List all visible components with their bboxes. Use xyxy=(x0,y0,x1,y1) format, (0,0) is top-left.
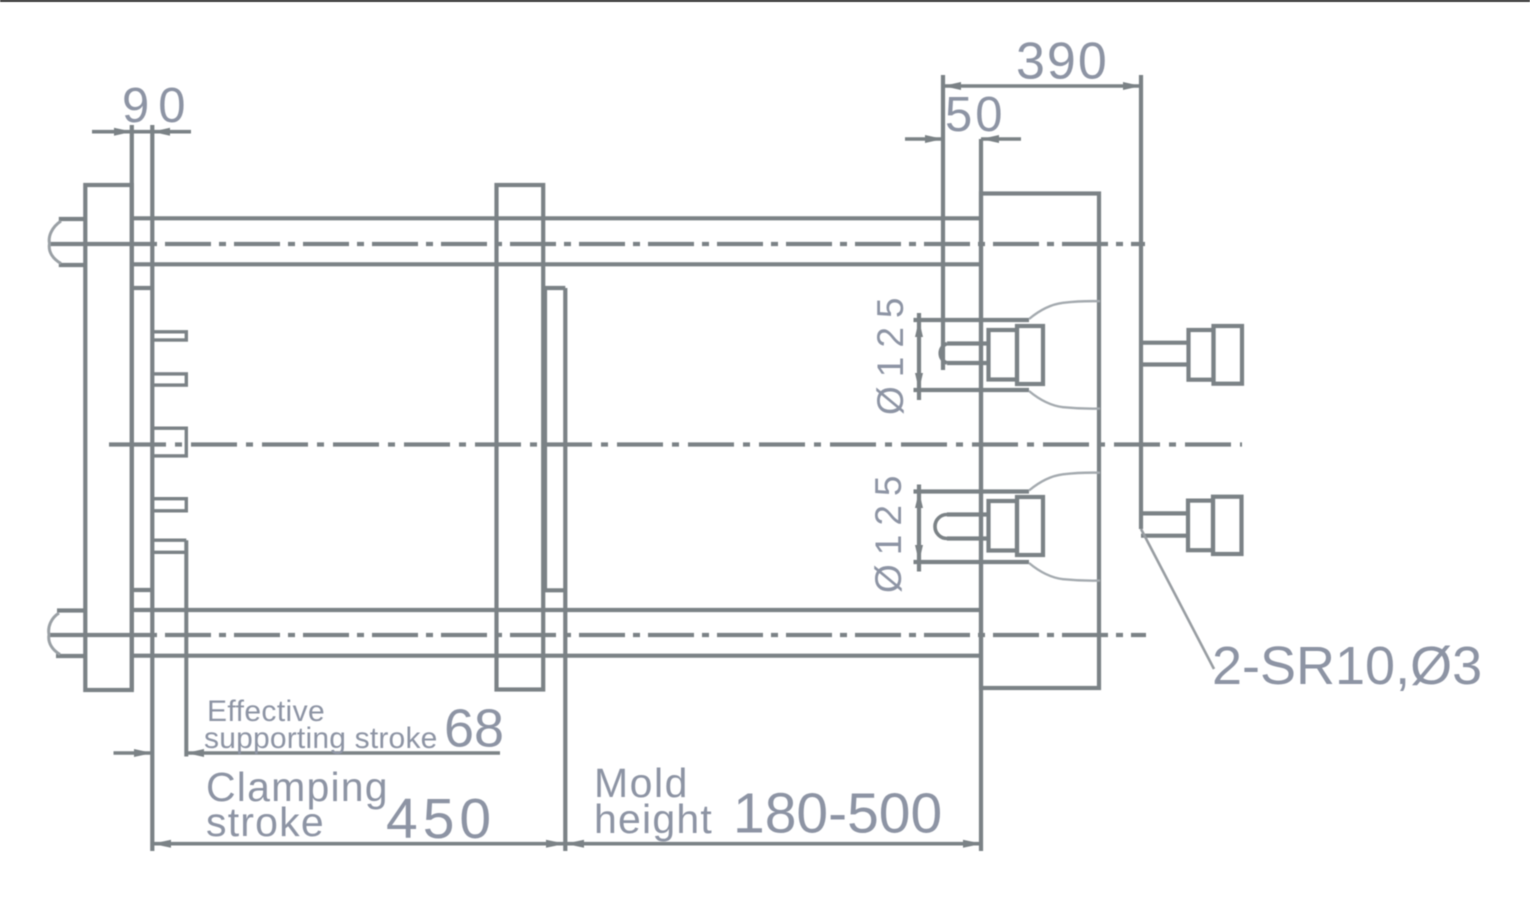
upper nozzle group xyxy=(914,320,1044,390)
lower nozzle tip arc xyxy=(935,515,947,539)
lower cap arc xyxy=(49,613,60,655)
upper nozzle tip arc xyxy=(940,344,947,364)
arrowheads xyxy=(114,82,1141,848)
fixed platen left edge extension to dimension xyxy=(979,139,983,851)
upper cylinder bottom line xyxy=(914,388,1030,392)
arrow 125 upper top xyxy=(915,320,923,337)
upper nozzle head small xyxy=(989,330,1018,380)
arrow 68 right xyxy=(186,749,204,757)
upper screw head large xyxy=(1214,326,1243,384)
svg-text:stroke: stroke xyxy=(206,799,325,845)
tie bar lower end cap bottom line xyxy=(56,654,85,658)
svg-text:2-SR10,Ø3: 2-SR10,Ø3 xyxy=(1212,636,1482,696)
bottom bar right edge / stroke extension xyxy=(184,540,188,756)
moving platen xyxy=(497,185,544,690)
tie bar lower end cap top line xyxy=(57,608,85,612)
dim 68 underline xyxy=(186,751,500,755)
arrow mold left xyxy=(565,840,584,848)
svg-text:450: 450 xyxy=(386,787,496,851)
lower nozzle shaft top xyxy=(947,512,989,516)
upper nozzle shaft bottom xyxy=(947,361,989,365)
dim 90 line xyxy=(92,130,191,134)
tie bar bottom lower line xyxy=(132,654,981,658)
upper cap arc xyxy=(49,221,61,264)
support plate bottom line xyxy=(545,588,565,592)
arrow 68 left xyxy=(134,749,152,757)
lower bell bottom curve xyxy=(1029,563,1100,581)
tab 3 middle xyxy=(152,428,186,456)
lower screw head large xyxy=(1213,497,1242,554)
dim 125 upper line xyxy=(917,313,921,400)
upper screw shaft bottom xyxy=(1141,362,1189,366)
piston rod right line xyxy=(150,125,154,851)
bottom bar top flange outer xyxy=(152,539,186,542)
right locating screws xyxy=(1141,326,1242,554)
rod rung upper xyxy=(132,286,153,290)
arrow 90 right xyxy=(152,128,170,136)
tie bar bottom centerline dashes xyxy=(165,633,1146,637)
rear platen block xyxy=(85,185,132,690)
upper nozzle shaft top xyxy=(947,341,989,345)
arrow 450 right xyxy=(546,840,565,848)
arrow 90 left xyxy=(114,128,132,136)
arrow 50 right xyxy=(981,135,999,143)
lower screw head small xyxy=(1188,501,1213,551)
main centerline dashes xyxy=(175,442,1242,446)
fixed platen xyxy=(981,194,1099,689)
main centerline solid lead xyxy=(109,442,166,446)
tie bar top centerline dashes xyxy=(165,242,1145,246)
svg-text:Ø125: Ø125 xyxy=(870,288,911,415)
dimension lines xyxy=(92,75,1141,844)
lower bell top curve xyxy=(1029,473,1100,491)
dim 125 lower line xyxy=(917,485,921,572)
dim 390 left extension xyxy=(941,75,945,370)
tie bar bottom upper line xyxy=(132,608,981,612)
tie bar bottom centerline solid lead xyxy=(50,633,157,637)
lower bell curves xyxy=(1029,473,1100,581)
tie bar end cap arcs xyxy=(49,221,61,655)
arrow 390 left xyxy=(943,82,961,90)
svg-text:180-500: 180-500 xyxy=(733,782,942,846)
upper bell top curve xyxy=(1029,301,1100,319)
svg-text:50: 50 xyxy=(945,88,1006,142)
lower nozzle shaft bottom xyxy=(947,536,989,540)
tab 2 xyxy=(152,374,186,385)
upper bell curves xyxy=(1029,301,1100,409)
dim 50 right line xyxy=(981,137,1021,141)
lower screw shaft top xyxy=(1141,511,1188,515)
arrow 125 lower top xyxy=(915,492,923,509)
svg-text:supporting stroke: supporting stroke xyxy=(204,722,438,755)
svg-text:90: 90 xyxy=(122,79,195,133)
rod rung lower xyxy=(132,588,153,592)
svg-text:height: height xyxy=(594,796,713,842)
dim bottom line xyxy=(152,842,982,846)
lower screw shaft bottom xyxy=(1141,534,1188,538)
support plate top line xyxy=(545,286,565,290)
svg-text:Ø125: Ø125 xyxy=(868,466,909,593)
lower cylinder bottom line xyxy=(914,560,1030,564)
arrow 50 left xyxy=(925,135,943,143)
piston rod left line xyxy=(130,125,134,690)
tie bar upper end cap top line xyxy=(59,217,86,221)
svg-text:68: 68 xyxy=(444,699,504,759)
lower nozzle head large xyxy=(1017,497,1043,555)
lower cylinder top line xyxy=(914,489,1030,493)
upper nozzle head large xyxy=(1017,326,1043,384)
upper bell bottom curve xyxy=(1029,391,1100,409)
tie bar top lower line xyxy=(132,262,981,266)
tie bar upper end cap bottom line xyxy=(59,263,86,267)
dim 390 line xyxy=(943,84,1141,88)
centerlines dash-dot xyxy=(50,244,1242,635)
arrow 390 right xyxy=(1123,82,1141,90)
dim 390 right extension xyxy=(1139,75,1143,529)
upper screw shaft top xyxy=(1141,341,1189,345)
arrow mold right xyxy=(963,840,982,848)
arrow 125 upper bottom xyxy=(915,373,923,390)
lower nozzle head small xyxy=(989,501,1018,551)
top border bar xyxy=(0,0,1530,2)
tab 4 xyxy=(152,499,186,511)
tab 1 xyxy=(152,332,186,340)
leader line 2-SR10 xyxy=(1141,529,1214,669)
upper cylinder top line xyxy=(914,318,1030,322)
arrow 450 left xyxy=(152,840,171,848)
lower nozzle group xyxy=(914,492,1044,563)
ejector tabs xyxy=(152,332,186,757)
bottom bar top flange inner xyxy=(154,551,186,554)
dim 50 left line xyxy=(905,137,943,141)
tie bar top centerline solid lead xyxy=(50,242,157,246)
tie bar top upper line xyxy=(132,216,981,220)
support plate right line / mold height extension xyxy=(563,288,567,851)
upper screw head small xyxy=(1189,330,1214,380)
support plate left line xyxy=(543,288,547,590)
svg-text:390: 390 xyxy=(1016,33,1109,91)
arrow 125 lower bottom xyxy=(915,545,923,562)
dim 68 left line xyxy=(114,751,153,755)
